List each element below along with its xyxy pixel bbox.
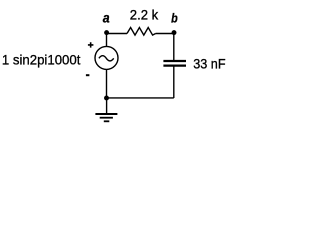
svg-text:2.2 k: 2.2 k <box>130 6 159 22</box>
ground symbol line 3 <box>104 120 110 122</box>
svg-text:a: a <box>103 10 110 26</box>
voltage source V1 circle <box>95 46 118 69</box>
wire: junction down to ground <box>106 98 108 114</box>
svg-text:1 sin2pi1000t: 1 sin2pi1000t <box>2 51 81 67</box>
wire: node a down to source top <box>106 34 108 47</box>
capacitor 33nF bottom plate <box>163 64 186 66</box>
junction node dot <box>104 96 109 101</box>
resistor 2.2k zigzag <box>127 28 156 36</box>
svg-text:b: b <box>171 10 178 25</box>
ground symbol line 2 <box>100 117 113 119</box>
voltage source minus sign <box>86 74 90 76</box>
wire: bottom horizontal from junction to capacitor branch <box>107 97 174 99</box>
wire: node a to resistor left lead <box>107 33 128 35</box>
wire: capacitor bottom plate down to bottom wire <box>173 66 175 98</box>
node a dot <box>104 30 109 35</box>
svg-text:33 nF: 33 nF <box>193 55 225 71</box>
voltage source plus sign <box>88 42 94 47</box>
ground symbol line 1 <box>95 113 117 115</box>
voltage source sine symbol <box>99 56 114 61</box>
wire: source bottom down to junction <box>106 69 108 98</box>
wire: resistor right lead to node b <box>156 33 174 35</box>
wire: node b down to capacitor top plate <box>173 34 175 61</box>
node b dot <box>172 30 177 35</box>
capacitor 33nF top plate <box>163 60 186 62</box>
